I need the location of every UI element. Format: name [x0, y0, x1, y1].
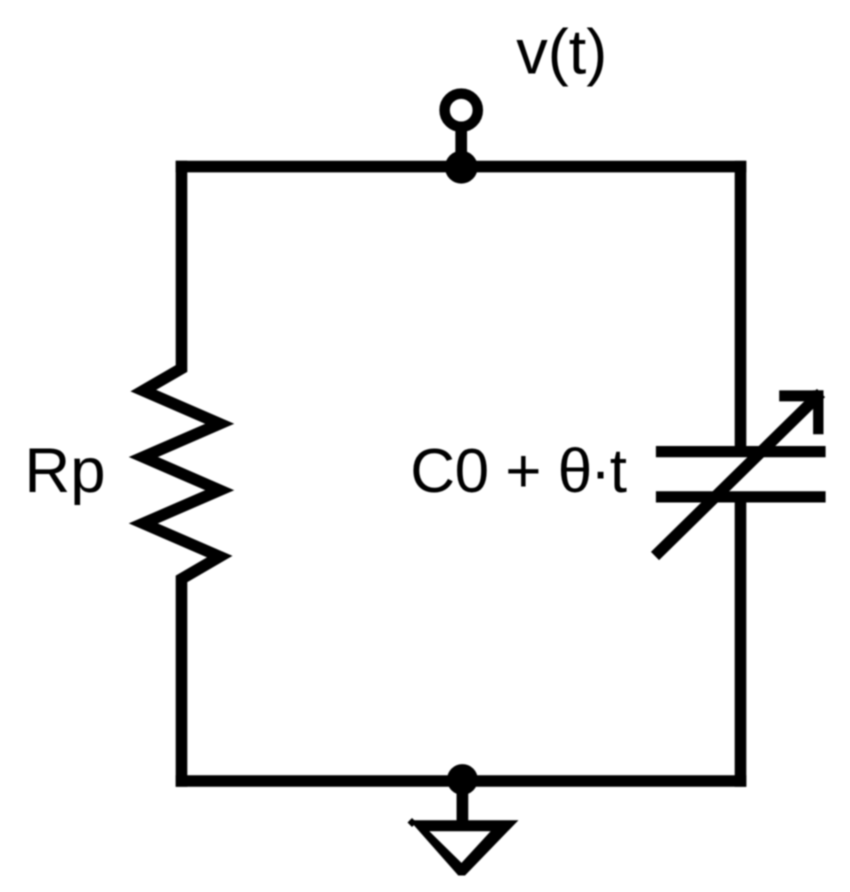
svg-text:Rp: Rp [24, 436, 105, 506]
svg-text:·: · [590, 437, 611, 506]
svg-text:v(t): v(t) [516, 18, 607, 88]
svg-text:t: t [610, 437, 627, 506]
svg-text:C0 + θ: C0 + θ [410, 437, 591, 506]
